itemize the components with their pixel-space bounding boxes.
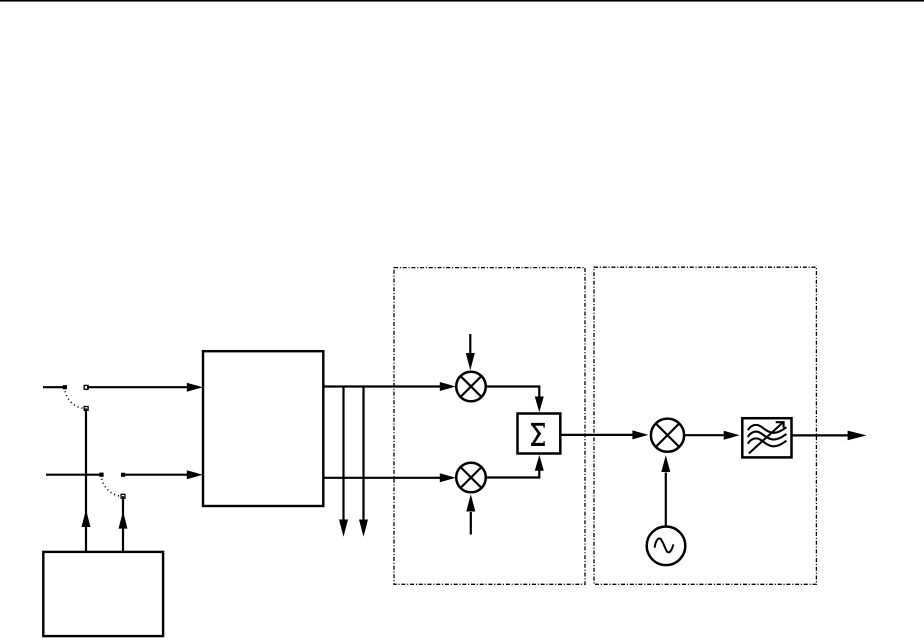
arrowhead down on clock tap 2 xyxy=(359,520,368,537)
wire: M2 output to summer xyxy=(486,469,540,478)
wire: switch S1 input stub xyxy=(43,386,65,388)
block U2 (DDS source block, bottom left) xyxy=(43,552,163,636)
wire: S1 to block U1 xyxy=(87,386,188,388)
node: S1 wiper contact (filled) xyxy=(63,385,67,389)
wire: DDS output 2 vertical (up to S2 throw B) xyxy=(122,496,124,552)
node: S1 throw A contact xyxy=(84,385,88,389)
oscillator LO (local oscillator) xyxy=(647,527,686,566)
wire: clock tap 1 vertical xyxy=(342,387,344,522)
arrowhead down on clock tap 1 xyxy=(339,520,348,537)
dashed region box 1 (quadrature modulator section) xyxy=(394,268,585,585)
switch S2 wiper arc (dotted) xyxy=(102,475,124,497)
arrowhead into filter xyxy=(724,431,740,440)
wire: LO to mixer M3 xyxy=(665,473,667,527)
wire: DDS output 1 vertical (up to S1 throw B) xyxy=(85,408,87,552)
arrowhead into mixer M2 xyxy=(440,473,456,482)
filter F1 (tunable band-pass filter) xyxy=(742,418,791,457)
node: S2 throw B contact xyxy=(121,494,125,498)
arrowhead into U1 bottom input xyxy=(187,470,203,479)
wire: U1 top output (I path) xyxy=(323,385,441,387)
page header rule xyxy=(0,0,924,2)
switch S1 wiper arc (dotted) xyxy=(65,387,86,408)
wire: M3 output to filter xyxy=(684,434,724,436)
block U1 (baseband processing block) xyxy=(203,351,323,506)
mixer M2 (bottom multiplier) xyxy=(456,463,486,493)
arrowhead into mixer M1 xyxy=(440,382,456,391)
node: S2 wiper contact (filled) xyxy=(99,473,103,477)
wire: summer output to mixer M3 xyxy=(560,434,633,436)
node: S2 throw A contact xyxy=(121,473,125,477)
arrowhead down into summer top xyxy=(535,397,544,413)
wire: clock tap 2 vertical xyxy=(362,387,364,522)
wire: final RF output xyxy=(792,434,850,436)
wire: M1 output to summer xyxy=(486,387,540,399)
wire: U1 bottom output (Q path) xyxy=(323,477,441,479)
arrowhead up into summer bottom xyxy=(535,455,544,471)
node: S1 throw B contact xyxy=(84,407,88,411)
wire: carrier input into M1 from top xyxy=(469,334,471,355)
mixer M1 (top multiplier) xyxy=(456,372,486,402)
arrowhead final output xyxy=(848,431,867,441)
mixer M3 (up-conversion multiplier) xyxy=(651,419,684,452)
wire: carrier input into M2 from bottom xyxy=(470,512,472,535)
dashed region box 2 (up-converter section) xyxy=(594,267,816,584)
summer U3 (sigma adder) xyxy=(518,414,561,454)
arrowhead down into M1 xyxy=(466,353,475,370)
arrowhead up into M3 from LO xyxy=(661,455,670,472)
arrowhead up on DDS output 2 xyxy=(119,511,128,528)
wire: S2 to block U1 xyxy=(124,474,188,476)
arrowhead up into M2 xyxy=(466,494,475,511)
arrowhead into U1 top input xyxy=(187,383,203,392)
arrowhead into M3 xyxy=(632,430,648,439)
wire: switch S2 input stub xyxy=(46,474,102,476)
arrowhead up on DDS output 1 xyxy=(82,510,91,528)
